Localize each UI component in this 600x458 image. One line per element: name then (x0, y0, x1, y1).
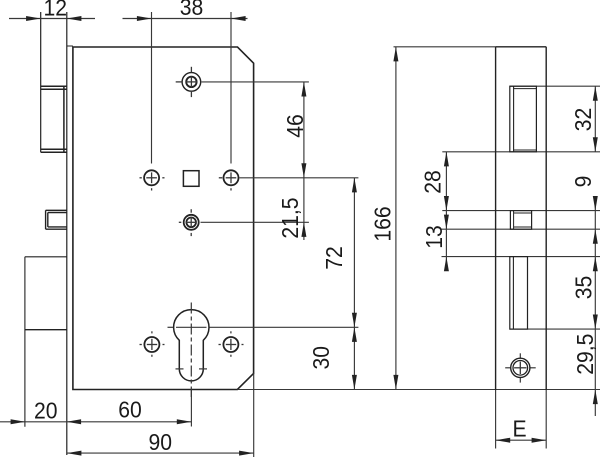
svg-text:13: 13 (421, 225, 447, 249)
svg-text:32: 32 (570, 108, 596, 132)
svg-text:29,5: 29,5 (572, 334, 598, 375)
svg-text:12: 12 (43, 0, 67, 21)
svg-text:166: 166 (369, 206, 395, 241)
svg-text:E: E (512, 415, 526, 441)
svg-text:38: 38 (180, 0, 204, 20)
svg-text:30: 30 (308, 346, 334, 370)
svg-text:60: 60 (118, 396, 142, 422)
svg-text:28: 28 (420, 170, 446, 194)
svg-text:72: 72 (321, 246, 347, 270)
svg-text:90: 90 (149, 429, 173, 455)
svg-text:46: 46 (282, 114, 308, 138)
svg-text:9: 9 (570, 176, 596, 188)
svg-text:21,5: 21,5 (277, 197, 303, 238)
svg-text:20: 20 (34, 397, 58, 423)
svg-text:35: 35 (571, 276, 597, 300)
